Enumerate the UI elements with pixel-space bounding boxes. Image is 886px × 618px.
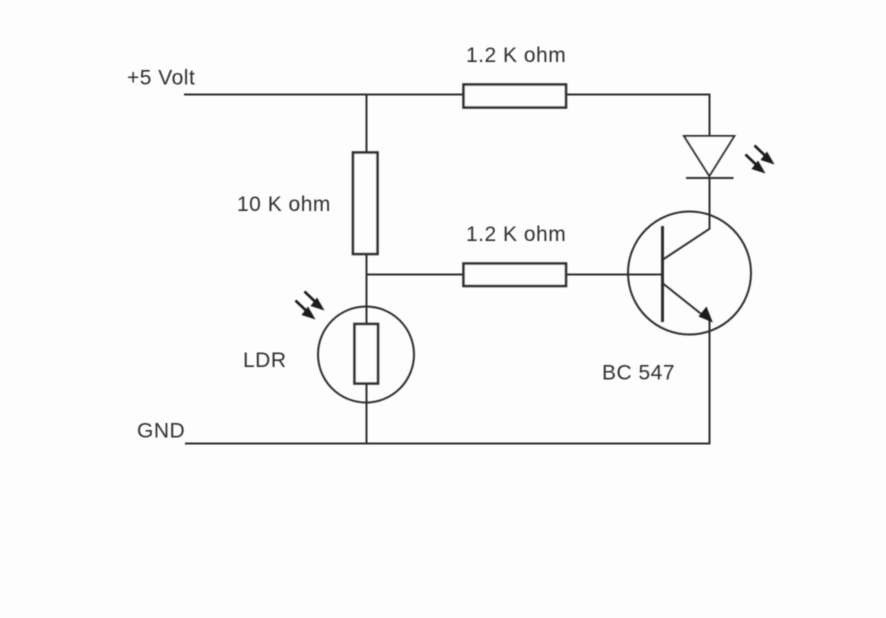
wire node vertical (divider)	[366, 95, 368, 444]
wire +5V rail	[184, 95, 710, 137]
LED light arrow 2	[746, 155, 766, 174]
svg-text:1.2 K ohm: 1.2 K ohm	[466, 44, 566, 67]
wire GND rail	[185, 443, 711, 445]
transistor Q1 collector stroke	[663, 229, 710, 260]
LDR circle	[318, 307, 414, 403]
wire base feed	[367, 274, 662, 276]
resistor R2 1.2K ohm	[464, 264, 567, 287]
LDR light arrow 1	[305, 292, 325, 311]
LED D1 triangle	[684, 136, 734, 176]
svg-text:GND: GND	[137, 420, 185, 443]
svg-text:1.2 K ohm: 1.2 K ohm	[466, 223, 566, 246]
svg-text:LDR: LDR	[243, 349, 287, 372]
svg-text:BC 547: BC 547	[602, 362, 675, 385]
resistor R1 1.2K ohm	[464, 85, 567, 108]
wire emitter to ground	[709, 317, 711, 444]
svg-text:10 K ohm: 10 K ohm	[237, 193, 331, 216]
transistor Q1 BC547 circle	[628, 212, 751, 335]
transistor Q1 emitter arrowhead	[699, 307, 713, 323]
transistor Q1 emitter stroke	[663, 284, 705, 318]
LED light arrow 1	[755, 146, 775, 165]
transistor Q1 base bar	[661, 226, 664, 322]
LDR resistor body	[355, 324, 379, 384]
LDR light arrow 2	[296, 301, 316, 320]
svg-text:+5 Volt: +5 Volt	[127, 67, 195, 90]
wire collector	[709, 178, 711, 230]
resistor R3 10K ohm	[353, 153, 378, 255]
LED D1 cathode bar	[686, 177, 734, 179]
